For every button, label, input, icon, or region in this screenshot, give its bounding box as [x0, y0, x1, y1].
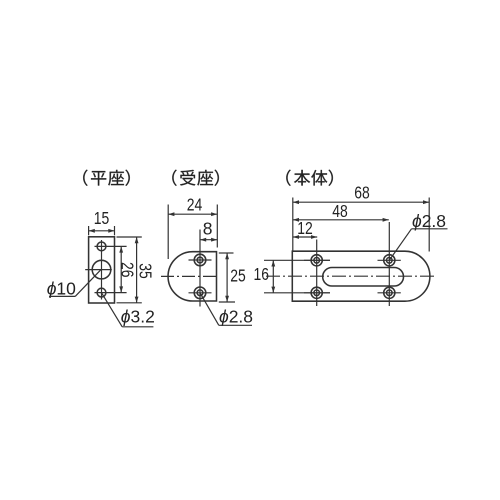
svg-text:ϕ2.8: ϕ2.8	[219, 306, 253, 326]
crosshair top hole 平座	[95, 245, 127, 247]
svg-text:26: 26	[118, 262, 138, 278]
crosshair phi10 平座	[85, 269, 112, 271]
hole top phi3.2 平座	[97, 242, 106, 251]
svg-text:ϕ2.8: ϕ2.8	[412, 211, 446, 231]
hole phi10 平座	[92, 260, 111, 279]
svg-text:12: 12	[297, 218, 313, 238]
countersunk hole top-right 本体	[384, 255, 395, 266]
svg-text:68: 68	[354, 182, 370, 202]
svg-text:35: 35	[136, 263, 156, 279]
svg-text:25: 25	[230, 266, 246, 286]
countersunk hole top 受座	[194, 254, 206, 266]
svg-text:24: 24	[187, 195, 203, 215]
part label (本体)	[286, 170, 290, 186]
hole column line 受座	[199, 230, 201, 307]
svg-text:ϕ3.2: ϕ3.2	[121, 307, 155, 327]
dimension 8 受座	[200, 239, 217, 241]
dimension 68 本体	[292, 198, 294, 251]
part label (受座)	[172, 170, 176, 186]
svg-text:16: 16	[254, 264, 270, 284]
countersunk hole bottom-right 本体	[384, 287, 395, 298]
crosshair top 受座	[189, 259, 212, 261]
crosshair bottom-left 本体	[304, 292, 330, 294]
crosshair bottom hole 平座	[95, 292, 127, 294]
plate outline 本体 (rounded right)	[292, 251, 430, 301]
vertical center line 平座	[101, 240, 103, 300]
svg-text:8: 8	[203, 219, 213, 239]
svg-text:ϕ10: ϕ10	[47, 278, 76, 298]
svg-text:48: 48	[332, 201, 348, 221]
dimension 48 本体	[293, 219, 389, 221]
crosshair top-right 本体	[378, 259, 401, 261]
crosshair top-left 本体	[304, 259, 330, 261]
horizontal center line 受座	[161, 275, 219, 277]
dimension 16 本体	[264, 259, 330, 261]
crosshair bottom-right 本体	[378, 292, 401, 294]
hole bottom phi3.2 平座	[97, 288, 106, 297]
countersunk hole bottom 受座	[194, 287, 206, 299]
dimension 24 受座	[167, 205, 169, 260]
svg-text:15: 15	[94, 208, 110, 228]
part label (平座)	[83, 170, 87, 186]
dimension 15 平座	[88, 226, 90, 235]
hole column line right 本体	[388, 222, 390, 306]
plate outline 受座 (rounded left)	[168, 252, 216, 301]
dimension 26 平座	[120, 246, 122, 292]
countersunk hole bottom-left 本体	[311, 287, 322, 298]
dimension 12 本体	[293, 236, 317, 238]
crosshair bottom 受座	[189, 292, 212, 294]
countersunk hole top-left 本体	[311, 255, 322, 266]
horizontal center line 本体	[266, 275, 435, 277]
hole column line left 本体	[316, 240, 318, 307]
slot 本体	[323, 268, 404, 287]
dimension 25 受座	[219, 252, 234, 254]
plate outline 平座	[89, 237, 115, 303]
dimension 35 平座	[117, 236, 142, 238]
